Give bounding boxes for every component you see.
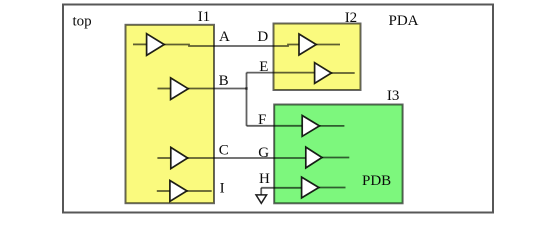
svg-text:H: H [259, 171, 270, 187]
svg-text:D: D [257, 29, 268, 45]
svg-text:G: G [258, 145, 269, 161]
svg-text:I: I [220, 181, 225, 197]
svg-text:C: C [219, 143, 229, 159]
svg-text:top: top [73, 13, 92, 29]
svg-text:I3: I3 [387, 88, 400, 104]
svg-text:PDB: PDB [362, 173, 391, 189]
svg-text:B: B [219, 73, 229, 89]
svg-text:PDA: PDA [389, 13, 419, 29]
svg-text:A: A [219, 29, 230, 45]
svg-text:I1: I1 [198, 9, 211, 25]
svg-text:F: F [258, 112, 266, 128]
svg-text:E: E [259, 59, 268, 75]
svg-text:I2: I2 [345, 10, 358, 26]
